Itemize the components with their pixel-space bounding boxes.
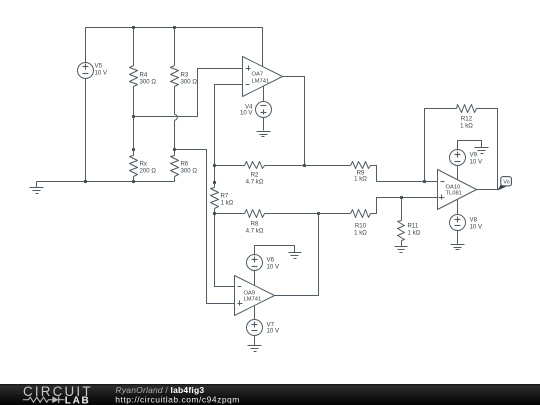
wire OA9 V+ stub [254, 271, 256, 286]
svg-text:http://circuitlab.com/c94zpqm: http://circuitlab.com/c94zpqm [115, 394, 240, 404]
wire OA9 output up to R8/R10 node [275, 214, 319, 296]
svg-text:R3: R3 [181, 72, 189, 79]
svg-text:R6: R6 [181, 161, 189, 168]
svg-text:4.7 kΩ: 4.7 kΩ [246, 179, 264, 186]
resistor R12 1 kOhm feedback [425, 105, 498, 190]
node R11 top junction [400, 196, 403, 199]
wire R6 top to OA9 + input [175, 150, 235, 304]
CircuitLab logo CIRCUIT text [23, 384, 93, 399]
node R12 column at OA10 - input [423, 180, 426, 183]
wire OA7 output to R2/R9 node [283, 77, 305, 166]
node bottom rail at V5 [84, 180, 87, 183]
node R6 top [173, 148, 176, 151]
wire R4 junction to OA7 + input [134, 69, 243, 117]
svg-text:V9: V9 [470, 152, 478, 159]
ground (V6) [289, 253, 302, 259]
svg-text:10 V: 10 V [470, 224, 483, 231]
CircuitLab logo resistor-diode-LAB line [23, 395, 91, 405]
svg-text:4.7 kΩ: 4.7 kΩ [246, 228, 264, 235]
wire OA7 - input to R7 column [215, 85, 243, 183]
wire V4 to ground [263, 118, 265, 131]
svg-text:10 V: 10 V [267, 328, 280, 335]
node bottom rail at Rx [132, 180, 135, 183]
wire V8 to ground [457, 231, 459, 245]
op-amp OA7 LM741 [243, 57, 283, 97]
svg-text:1 kΩ: 1 kΩ [354, 176, 367, 183]
ground (below V8) [451, 245, 465, 250]
wire V7 to ground [254, 336, 256, 346]
wire OA10 V+ stub [457, 166, 459, 180]
resistor R3 300 Ohm [171, 28, 198, 115]
svg-text:1 kΩ: 1 kΩ [460, 123, 473, 130]
wire V9 top to ground [458, 141, 482, 151]
ground (V9) [475, 148, 489, 154]
svg-text:10 V: 10 V [240, 110, 253, 117]
svg-text:R8: R8 [251, 221, 259, 228]
resistor Rx 200 Ohm [130, 117, 157, 182]
resistor R8 4.7 kOhm [215, 210, 319, 235]
ground (below R11) [395, 247, 408, 253]
voltage source V4 10 V [240, 102, 272, 118]
wire bottom rail [37, 181, 175, 183]
wire V5 bottom to ground rail [85, 78, 87, 182]
resistor R7 1 kOhm [211, 183, 234, 214]
svg-text:300 Ω: 300 Ω [181, 79, 198, 86]
wire OA10 output [477, 189, 498, 191]
svg-text:OA7: OA7 [252, 72, 264, 78]
svg-text:LM741: LM741 [252, 79, 270, 85]
node top rail at R4 [132, 26, 135, 29]
op-amp OA9 LM741 [235, 276, 275, 316]
svg-text:10 V: 10 V [95, 70, 108, 77]
svg-text:1 kΩ: 1 kΩ [408, 230, 421, 237]
node Rx top [132, 148, 135, 151]
voltage source V8 10 V [450, 215, 483, 231]
svg-text:LM741: LM741 [244, 297, 262, 303]
resistor R9 1 kOhm [305, 162, 438, 183]
resistor R11 1 kOhm [398, 198, 421, 247]
svg-text:300 Ω: 300 Ω [140, 79, 157, 86]
svg-text:1 kΩ: 1 kΩ [221, 200, 234, 207]
footer url [115, 394, 240, 404]
voltage source V5 10 V [78, 63, 108, 79]
output flag Vo [501, 177, 512, 186]
wire OA7 V+ stub [262, 28, 264, 67]
voltage source V7 10 V [247, 320, 280, 336]
wire OA10 V- stub [457, 200, 459, 215]
wire OA9 V- stub [254, 306, 256, 320]
op-amp OA10 TL081 [438, 170, 477, 210]
voltage source V6 10 V [247, 255, 280, 271]
node R4 bottom junction [132, 115, 135, 118]
svg-text:TL081: TL081 [446, 191, 462, 197]
svg-text:1 kΩ: 1 kΩ [354, 230, 367, 237]
svg-text:V6: V6 [267, 257, 275, 264]
wire hop at R3 column over node wire [175, 114, 178, 120]
resistor R4 300 Ohm [130, 28, 157, 117]
svg-text:300 Ω: 300 Ω [181, 168, 198, 175]
voltage source V9 10 V [450, 150, 483, 166]
footer title RyanOrland / lab4fig3 [116, 385, 205, 395]
node OA7 minus column at R2 [213, 164, 216, 167]
svg-text:R12: R12 [461, 116, 473, 123]
wire R3 bottom to R6 top (passes hop) [174, 121, 176, 150]
svg-text:Rx: Rx [140, 161, 147, 168]
wire R7 column down to OA9 - input [215, 214, 235, 287]
svg-text:10 V: 10 V [470, 159, 483, 166]
node OA9 output junction [317, 212, 320, 215]
node OA7 output junction [303, 164, 306, 167]
wire V6 top to ground [255, 246, 295, 256]
wire top rail from V5 to OA7 V+ [86, 28, 263, 67]
svg-text:R10: R10 [355, 223, 367, 230]
ground (left, bottom rail) [30, 182, 44, 194]
svg-text:R11: R11 [408, 223, 419, 230]
resistor R10 1 kOhm [319, 198, 438, 237]
node Vo flag pointer [497, 184, 506, 191]
svg-text:200 Ω: 200 Ω [140, 168, 157, 175]
footer bar [0, 384, 540, 405]
svg-text:LAB: LAB [65, 395, 91, 405]
node top rail at R3 [173, 26, 176, 29]
svg-text:10 V: 10 V [267, 264, 280, 271]
wire OA7 V- stub to V4 [263, 87, 265, 102]
ground (below V7) [248, 346, 262, 352]
node R8 left junction [213, 212, 216, 215]
svg-text:Vo: Vo [503, 180, 510, 186]
ground (below V4) [257, 132, 271, 137]
resistor R2 4.7 kOhm [215, 162, 305, 186]
svg-text:V5: V5 [95, 63, 103, 70]
svg-text:R2: R2 [251, 172, 259, 179]
svg-text:R7: R7 [221, 193, 229, 200]
resistor R6 300 Ohm [171, 150, 198, 182]
node R7 top [213, 181, 216, 184]
svg-text:V8: V8 [470, 217, 478, 224]
svg-text:R4: R4 [140, 72, 148, 79]
